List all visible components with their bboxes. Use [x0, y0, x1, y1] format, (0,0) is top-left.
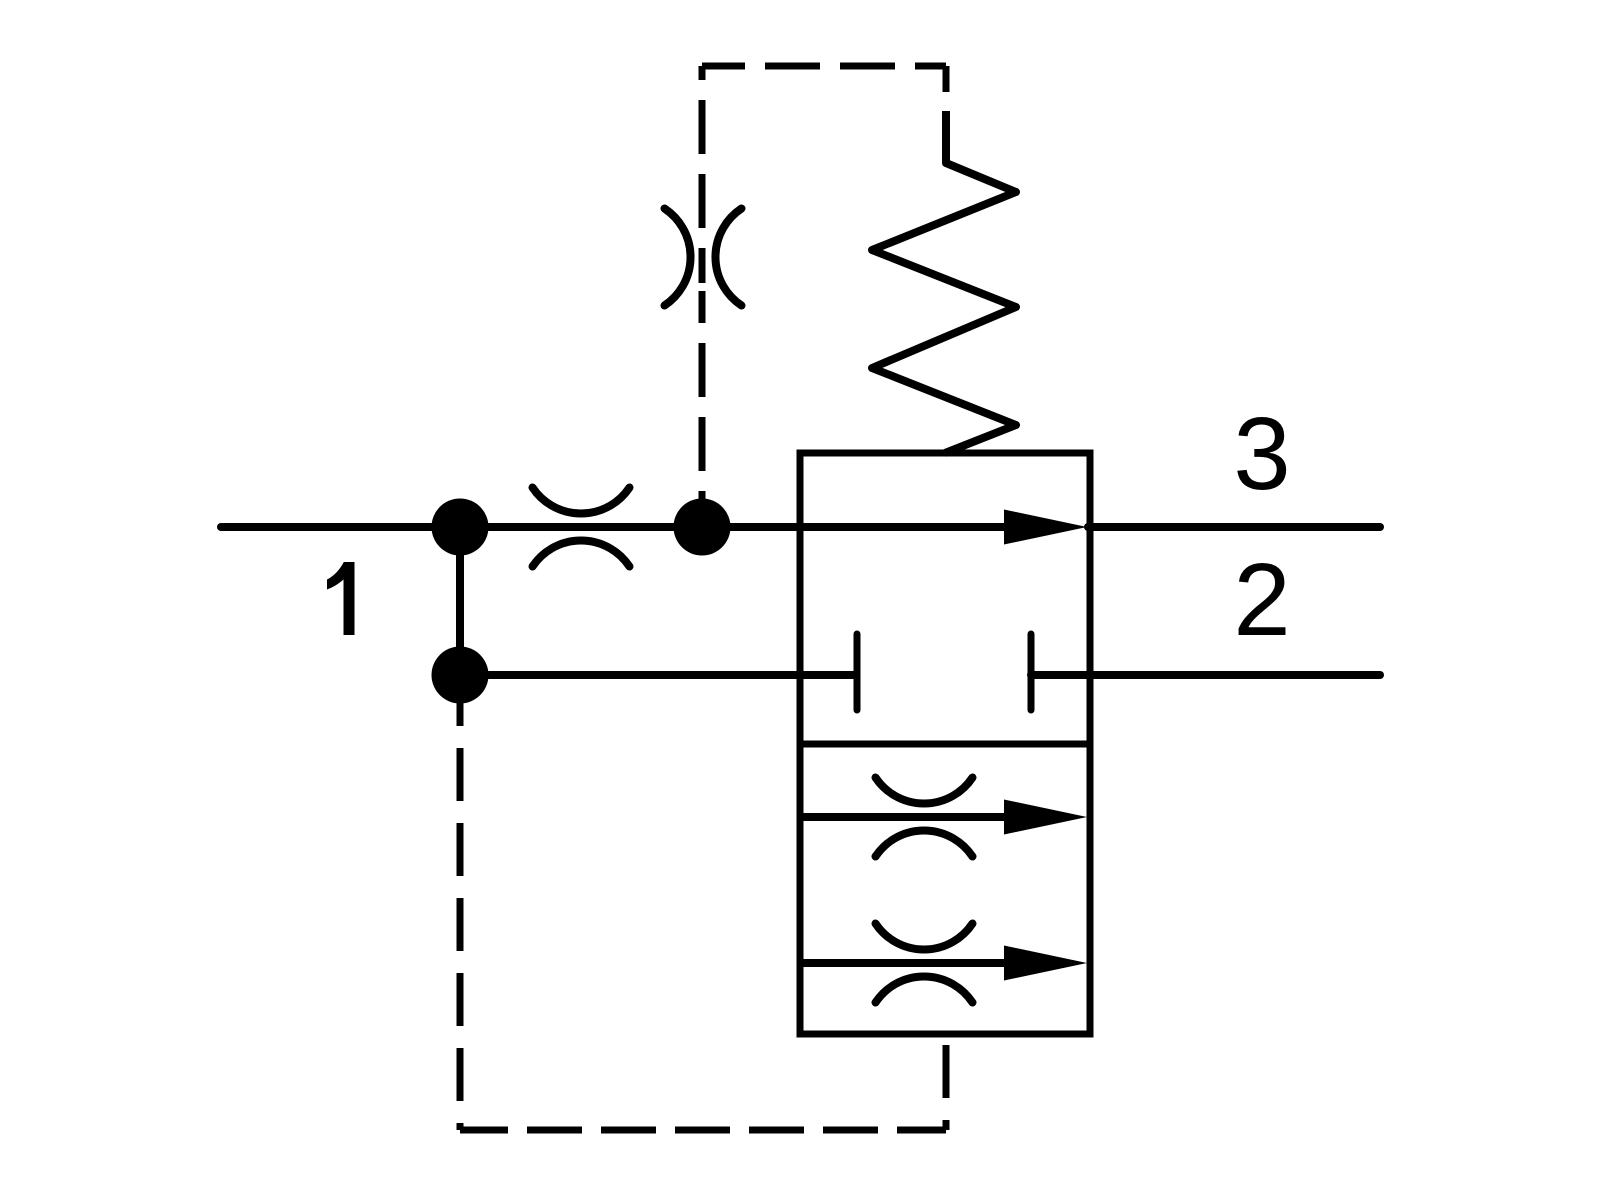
wire: line 3 outlet (right of valve box, y=527)	[1088, 523, 1380, 531]
spring (zigzag above valve box)	[872, 111, 1016, 453]
dashed drain line up to lower box bottom	[943, 1034, 950, 1130]
node C junction dot (pilot tap)	[674, 499, 731, 556]
orifice arcs on lower path B	[876, 924, 973, 1003]
arrow on flow path 1-3 inside upper box	[1004, 510, 1087, 545]
pilot orifice on dashed pilot line (vertical, centre 703,257)	[665, 209, 742, 306]
svg-text:2: 2	[1233, 542, 1290, 657]
wire: vertical link node A to node B (x=460)	[456, 527, 464, 675]
dashed drain line from node B down	[457, 675, 464, 1130]
blocked port bar (right) of closed path in upper box	[1028, 634, 1035, 710]
dashed pilot line down to spring	[943, 66, 950, 111]
port label 1 (drawn as path, Arial-style glyph without foot serif)	[327, 562, 355, 635]
dashed pilot line (below pilot orifice, down to node C)	[699, 291, 706, 527]
valve body upper box	[800, 453, 1090, 744]
wire: main inlet line 1 (horizontal, y=527)	[221, 523, 1020, 531]
lower box flow path A (y=817) with arrow	[800, 813, 1046, 821]
dashed drain line bottom horizontal	[460, 1127, 946, 1134]
valve body lower box	[800, 744, 1090, 1034]
orifice arcs on lower path A	[876, 778, 973, 857]
wire: line 2 right segment (blocked port to outlet 2)	[1031, 671, 1380, 679]
wire: line 2 left segment (node B to blocked port)	[460, 671, 857, 679]
svg-text:3: 3	[1233, 396, 1290, 511]
node B junction dot	[432, 647, 489, 704]
dashed pilot line top horizontal	[702, 63, 946, 70]
dashed pilot line from node C up to corner	[699, 66, 706, 283]
lower box flow path B (y=963) with arrow	[800, 959, 1046, 967]
blocked port bar (left) of closed path in upper box	[854, 634, 861, 710]
node A junction dot	[432, 499, 489, 556]
orifice (restriction) on line 1 between node A and node C	[533, 488, 630, 567]
